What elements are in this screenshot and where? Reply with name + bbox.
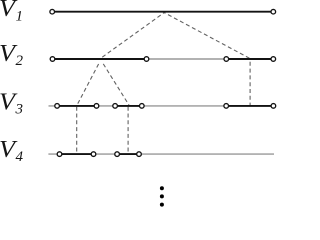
row V4 thick interval 2 bbox=[117, 153, 139, 155]
row V2 endpoint circle 1 bbox=[50, 57, 55, 62]
row V3 endpoint circle 2 bbox=[94, 104, 99, 109]
vertical ellipsis dot 1 bbox=[160, 186, 164, 190]
svg-text:3: 3 bbox=[15, 102, 24, 118]
row V3 endpoint circle 1 bbox=[55, 104, 60, 109]
svg-text:1: 1 bbox=[16, 8, 24, 24]
row V3 endpoint circle 3 bbox=[113, 104, 118, 109]
label V3 bbox=[0, 89, 23, 117]
row V2 thick interval left bbox=[53, 58, 147, 60]
label V1 bbox=[0, 0, 23, 24]
row V4 thick interval 1 bbox=[60, 153, 94, 155]
row V3 thick interval 3 bbox=[226, 105, 273, 107]
row V1 right endpoint circle bbox=[271, 9, 276, 14]
label V4 bbox=[0, 137, 24, 165]
svg-text:4: 4 bbox=[16, 149, 24, 165]
row V3 endpoint circle 5 bbox=[224, 104, 229, 109]
row V4 endpoint circle 4 bbox=[137, 152, 142, 157]
dashed connector row2 right mid to row3 seg3 mid bbox=[249, 60, 251, 105]
row V4 endpoint circle 1 bbox=[57, 152, 62, 157]
row V3 gray base line bbox=[49, 105, 274, 107]
row V1 thick interval bbox=[52, 11, 273, 13]
row V3 endpoint circle 4 bbox=[140, 104, 145, 109]
dashed connector row2 left mid to row3 seg1 mid bbox=[77, 62, 100, 106]
label V2 bbox=[0, 41, 24, 69]
row V3 endpoint circle 6 bbox=[271, 104, 276, 109]
dashed connector row3 seg2 mid to row4 seg2 mid bbox=[127, 107, 129, 154]
vertical ellipsis dot 2 bbox=[160, 194, 164, 198]
row V2 endpoint circle 2 bbox=[144, 57, 149, 62]
row V3 thick interval 2 bbox=[115, 105, 142, 107]
row V4 endpoint circle 3 bbox=[115, 152, 120, 157]
dashed connector row3 seg1 mid to row4 seg1 mid bbox=[76, 107, 78, 154]
svg-text:2: 2 bbox=[16, 53, 24, 69]
dashed connector row1 mid to row2 left mid bbox=[101, 13, 164, 59]
row V4 endpoint circle 2 bbox=[91, 152, 96, 157]
row V1 left endpoint circle bbox=[50, 9, 55, 14]
row V4 gray base line bbox=[48, 153, 274, 155]
row V3 thick interval 1 bbox=[57, 105, 96, 107]
dashed connector row2 left mid to row3 seg2 mid bbox=[102, 62, 129, 106]
row V2 endpoint circle 3 bbox=[224, 57, 229, 62]
row V2 endpoint circle 4 bbox=[271, 57, 276, 62]
dashed connector row1 mid to row2 right mid bbox=[164, 13, 249, 59]
vertical ellipsis dot 3 bbox=[160, 203, 164, 207]
row V2 gray base line bbox=[147, 58, 227, 60]
row V2 thick interval right bbox=[226, 58, 273, 60]
